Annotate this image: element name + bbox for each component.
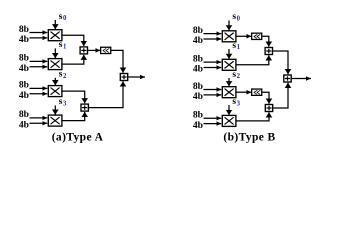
svg-text:4b: 4b <box>19 90 29 101</box>
svg-text:0: 0 <box>237 16 241 23</box>
svg-text:4b: 4b <box>193 91 203 102</box>
svg-text:2: 2 <box>237 73 241 80</box>
svg-text:2: 2 <box>63 73 67 80</box>
svg-text:3: 3 <box>237 100 241 107</box>
svg-text:1: 1 <box>237 44 241 51</box>
svg-text:(a)Type A: (a)Type A <box>52 132 104 144</box>
svg-text:0: 0 <box>63 15 67 22</box>
svg-text:4b: 4b <box>19 34 29 45</box>
svg-text:4b: 4b <box>193 64 203 75</box>
svg-text:(b)Type B: (b)Type B <box>223 132 275 144</box>
svg-text:4b: 4b <box>19 63 29 74</box>
svg-text:4b: 4b <box>193 120 203 131</box>
svg-text:4b: 4b <box>19 120 29 131</box>
svg-text:4b: 4b <box>193 35 203 46</box>
svg-text:3: 3 <box>63 101 67 108</box>
svg-text:1: 1 <box>63 44 67 51</box>
